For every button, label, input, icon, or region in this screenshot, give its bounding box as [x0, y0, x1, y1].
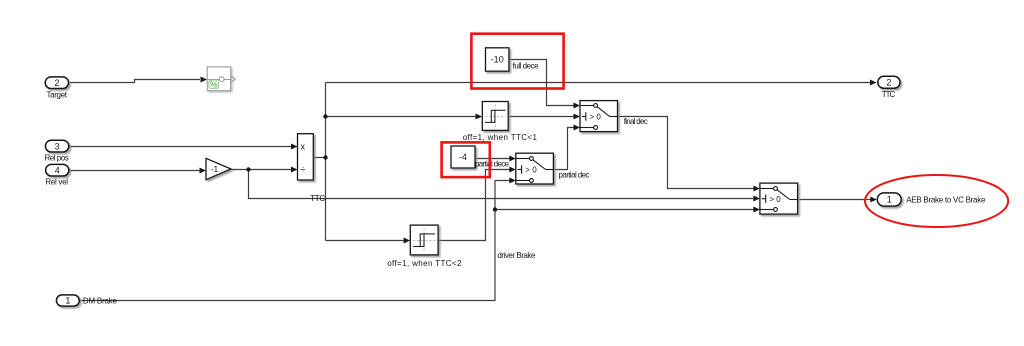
svg-text:Rel vel: Rel vel [45, 177, 68, 186]
svg-text:TTC: TTC [310, 194, 325, 203]
svg-text:x: x [301, 142, 306, 152]
svg-text:partial dece: partial dece [475, 160, 510, 169]
svg-text:Target: Target [46, 91, 67, 100]
svg-text:off=1, when TTC<1: off=1, when TTC<1 [463, 133, 538, 142]
svg-text:full dece: full dece [513, 61, 540, 70]
svg-text:partial dec: partial dec [559, 171, 590, 180]
svg-text:2: 2 [54, 78, 59, 88]
svg-text:final dec: final dec [624, 117, 648, 126]
svg-text:> 0: > 0 [525, 166, 537, 175]
svg-text:1: 1 [887, 195, 892, 205]
svg-text:3: 3 [55, 141, 60, 151]
svg-text:4: 4 [55, 165, 60, 175]
svg-text:> 0: > 0 [769, 195, 781, 204]
svg-text:Rel pos: Rel pos [44, 154, 68, 163]
svg-text:driver Brake: driver Brake [497, 251, 536, 260]
svg-text:DM Brake: DM Brake [83, 296, 118, 305]
svg-text:-1: -1 [211, 164, 219, 174]
svg-text:-4: -4 [459, 152, 467, 162]
svg-text:-10: -10 [491, 55, 504, 65]
svg-text:> 0: > 0 [590, 113, 602, 122]
svg-text:TTC: TTC [882, 90, 896, 99]
svg-text:off=1, when TTC<2: off=1, when TTC<2 [387, 259, 462, 268]
svg-text:1: 1 [65, 296, 70, 306]
svg-text:2: 2 [886, 78, 891, 88]
svg-text:÷: ÷ [301, 165, 306, 175]
svg-text:AEB Brake to VC Brake: AEB Brake to VC Brake [906, 195, 986, 204]
